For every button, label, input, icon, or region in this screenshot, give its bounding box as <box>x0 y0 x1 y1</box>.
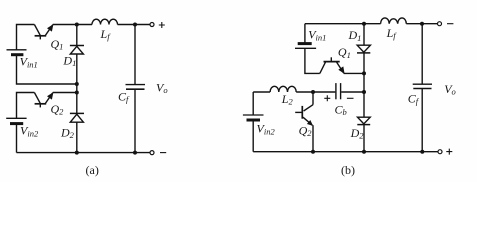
wire D-column vertical upper (a) <box>76 25 78 46</box>
wire D-column upper (b) <box>363 24 365 46</box>
capacitor Cf (b) <box>413 84 432 88</box>
wire Cf upper lead (a) <box>134 25 136 85</box>
label + (a) <box>159 22 165 28</box>
svg-text:(b): (b) <box>341 163 355 177</box>
wire Cf lower lead (a) <box>134 89 136 152</box>
wire cell2 rail left (a) <box>17 93 35 119</box>
wire cell1 bottom (a) <box>17 56 77 85</box>
battery Vin1 (a) <box>7 50 27 55</box>
transistor Q1 <box>34 24 53 39</box>
inductor L2 (b) <box>270 86 296 92</box>
terminal + (b) <box>438 150 442 154</box>
node D-column top rail (a) <box>75 23 79 27</box>
node mid rail Q2 branch (b) <box>311 90 315 94</box>
label - (b) <box>447 23 453 25</box>
terminal - (b) <box>438 22 442 26</box>
battery Vin1 (b) <box>295 44 316 49</box>
wire D-column middle (b) <box>363 53 365 117</box>
wire top rail left segment (b) <box>305 23 381 25</box>
battery Vin2 (a) <box>6 118 26 123</box>
label + of Cb (b) <box>324 95 330 101</box>
node top rail D-column (b) <box>362 22 366 26</box>
transistor Q2 <box>34 92 53 107</box>
diode D2 <box>70 113 84 122</box>
node top rail Cf branch (b) <box>420 22 424 26</box>
wire mid rail Cb to D-column (b) <box>341 91 364 93</box>
wire mid rail left (b) <box>253 91 270 93</box>
node bottom rail Q2 (b) <box>311 150 315 154</box>
node bottom rail D-column (b) <box>362 150 366 154</box>
wire top rail inductor to + terminal (a) <box>118 24 151 26</box>
wire cell2 rail right (a) <box>53 92 77 94</box>
wire Vin1 top lead (b) <box>304 24 306 44</box>
inductor Lf (a) <box>92 19 118 24</box>
capacitor Cf (a) <box>126 85 146 90</box>
wire top rail Q1 to inductor (a) <box>53 24 92 26</box>
label + (b) <box>446 149 452 155</box>
node Q1/D1 junction (b) <box>362 71 366 75</box>
svg-text:(a): (a) <box>86 163 99 177</box>
transistor Q1 (b) <box>320 57 345 74</box>
wire D-column vertical lower (a) <box>76 122 78 152</box>
wire Q1 emitter to D-column (b) <box>344 72 364 74</box>
node top rail / Cf branch (a) <box>133 23 137 27</box>
node bottom rail Cf branch (b) <box>420 150 424 154</box>
wire Cf upper lead (b) <box>421 24 423 84</box>
wire D-column lower (b) <box>363 125 365 152</box>
wire Cf lower lead (b) <box>421 89 423 152</box>
wire mid rail L2 to Cb (b) <box>296 91 335 93</box>
wire D-column vertical middle (a) <box>76 54 78 113</box>
label - of Cb (b) <box>347 97 354 99</box>
node D-column cell1 bottom (a) <box>75 82 79 86</box>
node bottom rail Cf branch (a) <box>133 151 137 155</box>
diode D1 <box>70 46 84 55</box>
diode D2 (b) <box>357 117 370 124</box>
battery Vin2 (b) <box>243 115 264 120</box>
node D-column mid rail (b) <box>362 90 366 94</box>
wire Vin1 bottom lead to Q1 collector (b) <box>305 48 320 73</box>
node D-column cell2 rail (a) <box>75 91 79 95</box>
inductor Lf (b) <box>381 18 407 24</box>
wire bottom rail (a) <box>17 152 151 154</box>
terminal + (a) <box>150 23 154 27</box>
terminal - (a) <box>150 151 154 155</box>
wire top-left rail + left vertical (a) <box>17 25 35 50</box>
label - (a) <box>160 152 166 154</box>
wire Vin2 bottom lead (b) <box>252 121 254 152</box>
wire Vin2 top lead (b) <box>252 92 254 115</box>
node bottom rail D-column (a) <box>75 151 79 155</box>
wire top rail right segment (b) <box>406 23 437 25</box>
transistor Q2 (b) <box>295 92 313 152</box>
capacitor Cb (b) <box>336 83 341 99</box>
diode D1 (b) <box>357 45 370 53</box>
wire bottom-left vertical (a) <box>16 124 18 152</box>
wire bottom rail (b) <box>253 151 438 153</box>
